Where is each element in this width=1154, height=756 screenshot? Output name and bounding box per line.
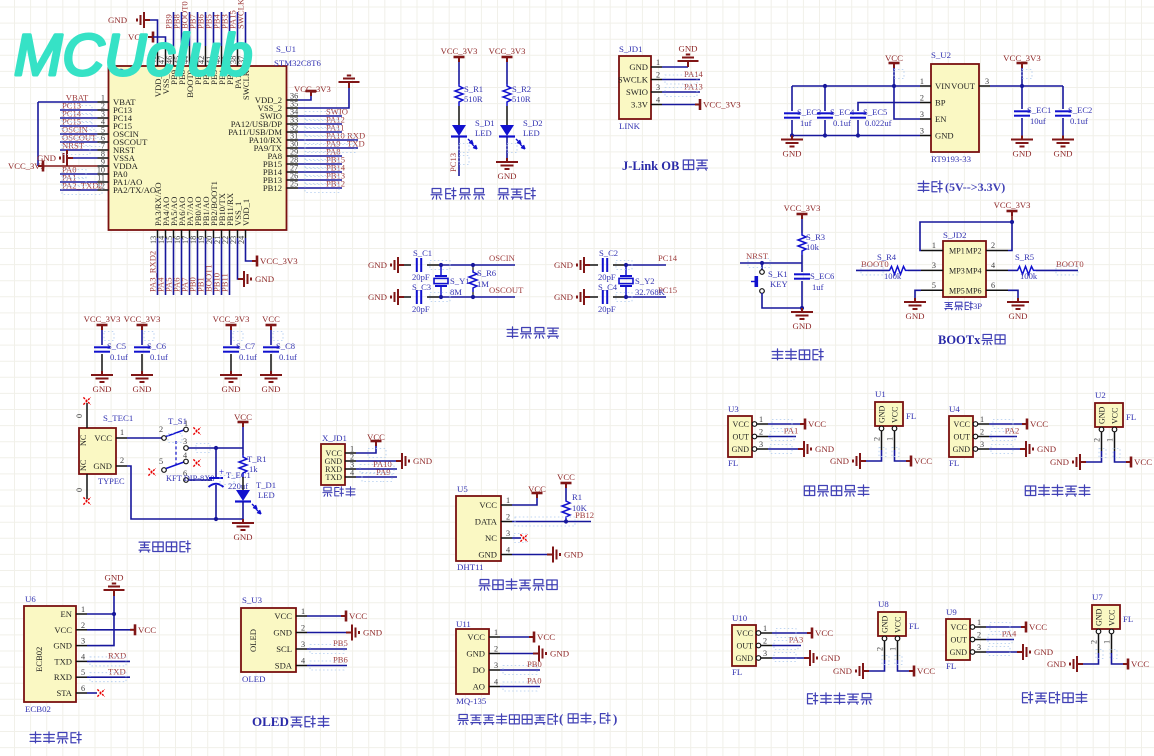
wire net PB1 <box>205 238 207 295</box>
pin 13 PA3/RX/AO <box>157 230 159 238</box>
pin 16 PA6/AO <box>181 230 183 238</box>
svg-text:OLED: OLED <box>248 629 258 652</box>
svg-text:GND: GND <box>1047 659 1066 669</box>
svg-text:S_C3: S_C3 <box>412 282 431 292</box>
svg-text:R1: R1 <box>572 492 582 502</box>
pin 2 GND <box>1099 427 1104 432</box>
ground GND U8 <box>856 663 869 679</box>
svg-text:4: 4 <box>656 96 660 105</box>
diode S_D2 LED <box>500 125 514 136</box>
svg-text:1: 1 <box>932 241 936 250</box>
pin 38 PA15 <box>237 46 239 66</box>
svg-text:510R: 510R <box>464 94 483 104</box>
wire net TXD <box>87 676 130 678</box>
ground GND J-Link <box>678 55 699 68</box>
power VCC_3V3 at pin 24 VDD_1 <box>246 238 253 261</box>
capacitor S_EC5 0.022uf <box>850 113 866 117</box>
pin 7 NRST <box>98 149 109 151</box>
pin 24 VDD_1 <box>245 230 247 238</box>
resistor R1 10K <box>562 500 570 520</box>
wire <box>427 296 441 298</box>
junction <box>800 306 804 310</box>
svg-text:OUT: OUT <box>954 433 971 442</box>
svg-text:PC14: PC14 <box>658 253 678 263</box>
svg-text:DATA: DATA <box>475 517 498 527</box>
svg-text:NRST: NRST <box>62 141 85 151</box>
power VCC U1 <box>906 456 911 467</box>
power VCC OLED <box>341 611 346 622</box>
pin 35 VSS_2 <box>287 107 299 109</box>
svg-text:S_C8: S_C8 <box>276 341 295 351</box>
svg-text:GND: GND <box>678 44 697 54</box>
wire net VBAT <box>38 101 98 103</box>
wire net PA0 <box>60 173 98 175</box>
power VCC bluetooth <box>130 624 135 635</box>
svg-text:VCC_3V3: VCC_3V3 <box>124 314 161 324</box>
svg-text:S_C7: S_C7 <box>236 341 256 351</box>
svg-text:3P: 3P <box>973 301 982 311</box>
svg-text:GND: GND <box>255 274 274 284</box>
resistor S_R4 100k <box>889 266 908 274</box>
junction <box>112 612 116 616</box>
power VCC download <box>371 441 382 446</box>
wire pin3 GND <box>772 657 804 659</box>
svg-text:2: 2 <box>980 428 984 437</box>
svg-text:LINK: LINK <box>619 121 641 131</box>
pin 19 PB1/AO <box>205 230 207 238</box>
caption pwr-led <box>498 189 509 200</box>
caption download port <box>323 487 332 496</box>
wire net PB5 <box>213 12 215 46</box>
wire <box>141 330 143 345</box>
wire key branch <box>761 263 763 270</box>
pin 43 PB7 <box>197 46 199 66</box>
power VCC U7 <box>1123 659 1128 670</box>
ground GND OLED <box>346 625 359 641</box>
pin 14 PA4/AO <box>165 230 167 238</box>
ground GND U7 <box>1070 656 1083 672</box>
svg-text:U7: U7 <box>1092 592 1103 602</box>
wire net PA2_TXD2 <box>60 189 98 191</box>
pin 2 MP2 <box>986 250 1008 252</box>
wire net PB14 <box>298 171 342 173</box>
svg-text:5: 5 <box>159 457 163 466</box>
svg-text:PA4: PA4 <box>1002 629 1017 639</box>
svg-text:OUT: OUT <box>737 642 754 651</box>
svg-text:2: 2 <box>873 437 882 441</box>
svg-text:1: 1 <box>184 419 188 428</box>
svg-text:PA2/TX/AO: PA2/TX/AO <box>113 185 156 195</box>
svg-text:S_R1: S_R1 <box>464 84 483 94</box>
svg-text:VCC: VCC <box>479 500 497 510</box>
svg-text:VCC: VCC <box>894 617 903 633</box>
svg-text:VOUT: VOUT <box>951 81 976 91</box>
wire net PB15 <box>298 163 342 165</box>
junction <box>214 517 218 521</box>
svg-text:AO: AO <box>473 682 485 692</box>
svg-text:VCC: VCC <box>94 433 112 443</box>
pin 4 PC15 <box>98 125 109 127</box>
svg-text:MP2: MP2 <box>966 247 982 256</box>
svg-text:VCC: VCC <box>917 666 935 676</box>
svg-text:GND: GND <box>478 550 497 560</box>
svg-text:2: 2 <box>876 647 885 651</box>
svg-text:2: 2 <box>759 428 763 437</box>
wire pin3 to node <box>189 447 244 449</box>
wire pin1 VCC <box>307 615 341 617</box>
svg-text:2: 2 <box>120 456 124 465</box>
svg-text:GND: GND <box>792 321 811 331</box>
pin 18 PB0/AO <box>197 230 199 238</box>
svg-text:5: 5 <box>81 668 85 677</box>
pin 27 PB14 <box>287 171 299 173</box>
wire net PC14 <box>60 117 98 119</box>
svg-text:MP3: MP3 <box>949 266 965 275</box>
svg-text:ECB02: ECB02 <box>34 647 44 672</box>
wire net PA14 <box>662 79 700 81</box>
svg-text:ECB02: ECB02 <box>25 704 51 714</box>
wire <box>762 293 802 308</box>
pin 28 PB15 <box>287 163 299 165</box>
ground GND download <box>396 453 409 469</box>
svg-text:PA14: PA14 <box>684 69 703 79</box>
wire net PB11 <box>229 238 231 295</box>
svg-text:S_U2: S_U2 <box>931 50 951 60</box>
svg-text:0.1uf: 0.1uf <box>239 352 257 362</box>
svg-text:2: 2 <box>494 645 498 654</box>
crystal S_Y1 8M <box>434 276 448 286</box>
pin 21 PB10/TX <box>221 230 223 238</box>
caption prog-led <box>431 189 442 200</box>
svg-text:GND: GND <box>833 666 852 676</box>
wire <box>801 255 803 263</box>
svg-text:EN: EN <box>935 114 947 124</box>
svg-text:100k: 100k <box>1020 271 1038 281</box>
svg-text:FL: FL <box>909 621 919 631</box>
wire GND U8 <box>869 660 885 671</box>
resistor T_R1 1k <box>239 455 247 477</box>
svg-text:RXD: RXD <box>108 651 126 661</box>
wire net OSCIN <box>60 133 98 135</box>
pin 1 VBAT <box>98 101 109 103</box>
wire net PA9 <box>298 147 358 149</box>
wire VCC U1 <box>895 450 907 461</box>
capacitor S_EC4 0.1uf <box>824 86 826 111</box>
svg-text:GND: GND <box>1050 457 1069 467</box>
svg-text:GND: GND <box>132 384 151 394</box>
svg-text:1uf: 1uf <box>812 282 824 292</box>
wire pin4 <box>1008 269 1017 271</box>
switch S_K1 KEY <box>760 270 765 275</box>
svg-text:3: 3 <box>494 661 498 670</box>
wire net SWIO <box>298 115 342 117</box>
svg-text:PB5: PB5 <box>333 638 348 648</box>
wire pin1 VCC <box>512 498 537 505</box>
wire <box>230 330 232 345</box>
capacitor S_C4 20pF <box>590 296 598 298</box>
wire net SWCLK <box>245 12 247 46</box>
power VCC U3 <box>800 419 805 430</box>
svg-text:GND: GND <box>1037 444 1056 454</box>
svg-text:VCC_3V3: VCC_3V3 <box>84 314 121 324</box>
svg-text:GND: GND <box>830 456 849 466</box>
svg-text:GND: GND <box>564 550 583 560</box>
svg-text:S_EC3: S_EC3 <box>797 107 821 117</box>
svg-text:S_C6: S_C6 <box>147 341 167 351</box>
resistor S_R3 10k <box>798 233 806 255</box>
wire net PA3 <box>772 645 801 647</box>
ground GND <box>391 257 404 273</box>
pin 15 PA5/AO <box>173 230 175 238</box>
wire VOUT rail <box>990 85 1063 87</box>
crystal S_Y2 32.768K <box>619 276 633 286</box>
ground GND for S_C5 <box>91 371 113 382</box>
pin 3 PC14 <box>98 117 109 119</box>
svg-text:VCC: VCC <box>1131 659 1149 669</box>
svg-text:VCC_3V3: VCC_3V3 <box>260 256 298 266</box>
power VCC U2 <box>1126 457 1131 468</box>
wire pin1 VCC <box>989 423 1022 425</box>
svg-text:2: 2 <box>301 624 305 633</box>
compile mask marks <box>305 112 339 121</box>
pin 39 PB3 <box>229 46 231 66</box>
wire GND U7 <box>1083 653 1099 664</box>
svg-text:1: 1 <box>506 496 510 505</box>
svg-text:TXD: TXD <box>326 473 343 482</box>
caption temperature humidity sensor <box>479 580 490 591</box>
svg-text:KEY: KEY <box>770 279 788 289</box>
ground GND for S_C6 <box>131 371 153 382</box>
svg-text:4: 4 <box>81 652 85 661</box>
svg-text:TYPEC: TYPEC <box>98 477 125 486</box>
pin 0 top no-connect <box>86 403 88 428</box>
svg-text:PA2: PA2 <box>1005 426 1020 436</box>
ground GND U10 <box>804 650 817 666</box>
svg-text:U6: U6 <box>25 594 36 604</box>
svg-text:GND: GND <box>221 384 240 394</box>
svg-text:20pF: 20pF <box>412 304 430 314</box>
svg-text:S_D1: S_D1 <box>475 118 495 128</box>
svg-text:GND: GND <box>554 260 573 270</box>
wire net BOOT0 left <box>856 269 889 271</box>
pin 34 SWIO <box>287 115 299 117</box>
svg-text:VCC_3V3: VCC_3V3 <box>994 200 1031 210</box>
svg-text:GND: GND <box>1008 311 1027 321</box>
ground GND U4 <box>1020 441 1033 457</box>
ground GND U2 <box>1073 454 1086 470</box>
pin 9 VDDA <box>98 165 109 167</box>
pin 48 VDD_3 <box>157 46 159 66</box>
ground GND at pin VSSA <box>60 150 73 166</box>
svg-text:MP6: MP6 <box>966 286 982 295</box>
svg-text:1: 1 <box>920 77 924 86</box>
ground GND at pin 23 VSS_1 <box>237 238 240 279</box>
wire net PB4 <box>221 12 223 46</box>
caption crystal circuit <box>507 327 518 338</box>
wire net PB12 <box>298 187 342 189</box>
svg-text:VCC: VCC <box>885 53 903 63</box>
wire pin1 VCC <box>772 632 807 634</box>
pin 29 PA8 <box>287 155 299 157</box>
junction <box>214 446 218 450</box>
wire net PB8 <box>181 12 183 46</box>
svg-text:VCC: VCC <box>467 632 485 642</box>
pin 45 PB8 <box>181 46 183 66</box>
svg-text:1: 1 <box>301 607 305 616</box>
svg-text:VCC: VCC <box>262 314 280 324</box>
svg-text:BOOT0: BOOT0 <box>1056 259 1084 269</box>
svg-text:VCC: VCC <box>733 420 749 429</box>
svg-text:U9: U9 <box>946 607 957 617</box>
pin 30 PA9/TX <box>287 147 299 149</box>
wire net OSCOUT <box>441 296 515 298</box>
wire net PB7 <box>197 12 199 46</box>
svg-text:VCC: VCC <box>349 611 367 621</box>
svg-text:FL: FL <box>946 661 956 671</box>
svg-text:S_TEC1: S_TEC1 <box>103 413 133 423</box>
svg-text:2: 2 <box>977 631 981 640</box>
wire <box>506 137 508 159</box>
capacitor T_EC1 220uf polarized <box>215 448 217 477</box>
power VCC MQ135 <box>529 632 534 643</box>
svg-text:GND: GND <box>953 445 971 454</box>
svg-text:1: 1 <box>886 437 895 441</box>
pin 42 PB6 <box>205 46 207 66</box>
svg-text:VCC_3V3: VCC_3V3 <box>213 314 250 324</box>
wire net PC15 <box>626 296 666 298</box>
svg-text:3: 3 <box>985 77 989 86</box>
svg-text:VCC: VCC <box>1111 408 1120 424</box>
svg-text:20pF: 20pF <box>598 272 616 282</box>
svg-text:GND: GND <box>261 384 280 394</box>
svg-text:1M: 1M <box>477 279 489 289</box>
svg-text:25: 25 <box>290 180 298 189</box>
svg-text:S_U1: S_U1 <box>276 44 296 54</box>
svg-text:0.022uf: 0.022uf <box>865 118 892 128</box>
svg-text:GND: GND <box>93 461 112 471</box>
svg-text:VCC: VCC <box>1108 610 1117 626</box>
svg-text:VIN: VIN <box>935 81 951 91</box>
svg-text:VCC: VCC <box>1029 622 1047 632</box>
pin 12 PA2/TX/AO <box>98 189 109 191</box>
svg-text:GND: GND <box>821 653 840 663</box>
wire top loop pin1-pin2 <box>920 222 1012 251</box>
svg-text:1: 1 <box>1103 640 1112 644</box>
svg-text:3: 3 <box>506 529 510 538</box>
svg-text:VCC: VCC <box>54 625 72 635</box>
svg-text:VCC: VCC <box>138 625 156 635</box>
svg-text:S_R6: S_R6 <box>477 268 497 278</box>
svg-text:S_EC6: S_EC6 <box>810 271 835 281</box>
svg-text:6: 6 <box>991 281 995 290</box>
ground GND <box>577 289 590 305</box>
pin 1 MP1 <box>921 250 943 252</box>
pin 2 GND <box>1096 629 1101 634</box>
svg-text:OLED: OLED <box>242 674 265 684</box>
caption air quality module <box>458 714 468 724</box>
svg-text:3: 3 <box>301 640 305 649</box>
wire <box>458 106 460 125</box>
svg-text:2: 2 <box>991 241 995 250</box>
svg-text:RT9193-33: RT9193-33 <box>931 154 972 164</box>
svg-text:2: 2 <box>656 71 660 80</box>
svg-text:U4: U4 <box>949 404 960 414</box>
svg-text:GND: GND <box>950 648 968 657</box>
ground GND regulator left <box>781 136 803 147</box>
pin 5 MP5 <box>921 289 943 291</box>
svg-text:1k: 1k <box>249 464 258 474</box>
svg-text:GND: GND <box>1095 608 1104 626</box>
svg-text:VCC: VCC <box>808 419 826 429</box>
ground GND <box>577 257 590 273</box>
wire net RXD <box>87 660 130 662</box>
diode S_D1 LED <box>452 125 466 136</box>
svg-text:1: 1 <box>656 58 660 67</box>
svg-text:TXD: TXD <box>108 667 126 677</box>
capacitor S_C3 20pF <box>404 296 411 298</box>
wire <box>801 219 803 233</box>
svg-text:TXD: TXD <box>54 656 72 666</box>
wire net NRST <box>60 149 98 151</box>
svg-text:VCC: VCC <box>954 420 970 429</box>
svg-text:10k: 10k <box>806 242 820 252</box>
power VCC U10 <box>807 628 812 639</box>
capacitor S_EC2 0.1uf <box>1062 86 1064 109</box>
IC S_U1 STM32C8T6 MCU <box>109 66 287 230</box>
svg-text:FL: FL <box>732 667 742 677</box>
svg-text:3: 3 <box>183 437 187 446</box>
svg-text:1: 1 <box>494 628 498 637</box>
svg-text:0.1uf: 0.1uf <box>1070 116 1088 126</box>
svg-text:NC: NC <box>79 434 88 446</box>
pin 2 GND <box>116 465 127 467</box>
svg-text:VCC_3V3: VCC_3V3 <box>703 100 741 110</box>
svg-text:U2: U2 <box>1095 390 1106 400</box>
power VCC_3V3 at pin 36 <box>298 96 311 100</box>
junction <box>564 519 568 523</box>
svg-text:GND: GND <box>905 311 924 321</box>
svg-text:S_Y1: S_Y1 <box>450 276 470 286</box>
svg-text:3: 3 <box>81 637 85 646</box>
power VCC U9 <box>1021 622 1026 633</box>
svg-text:2: 2 <box>1090 640 1099 644</box>
wire net PA5 <box>173 238 175 295</box>
svg-text:3: 3 <box>980 440 984 449</box>
svg-text:LED: LED <box>258 490 275 500</box>
svg-text:S_EC2: S_EC2 <box>1068 105 1092 115</box>
svg-text:MQ-135: MQ-135 <box>456 696 487 706</box>
svg-text:PB6: PB6 <box>333 655 349 665</box>
wire net PA6 <box>181 238 183 295</box>
svg-text:S_C4: S_C4 <box>598 282 618 292</box>
svg-text:S_EC5: S_EC5 <box>863 107 887 117</box>
power VCC DHT11 <box>532 493 543 498</box>
svg-text:VCC: VCC <box>537 632 555 642</box>
power VCC_3V3 J-Link <box>695 99 700 110</box>
svg-text:VCC: VCC <box>737 629 753 638</box>
ground GND reset <box>791 308 813 319</box>
caption power 5V to 3.3V <box>918 181 929 192</box>
wire VCC drop / EN tie <box>894 68 920 119</box>
svg-text:32.768K: 32.768K <box>635 287 666 297</box>
svg-text:GND: GND <box>1012 149 1031 159</box>
svg-text:PA13: PA13 <box>684 82 703 92</box>
svg-text:4: 4 <box>506 546 510 555</box>
svg-text:GND: GND <box>92 384 111 394</box>
wire pin2 GND <box>500 653 533 655</box>
svg-text:OSCOUT: OSCOUT <box>489 285 524 295</box>
pin 4 MP4 <box>986 269 1008 271</box>
